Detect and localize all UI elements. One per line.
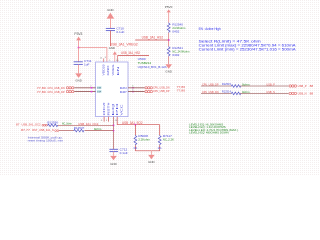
svg-text:2.2Kohm: 2.2Kohm [138, 138, 150, 142]
ground [109, 46, 117, 62]
capacitor C710 [106, 27, 125, 46]
wire [240, 92, 288, 94]
power P3V3 [74, 32, 82, 48]
node CPU_USB_DN far right [202, 90, 231, 94]
capacitor C712 [109, 148, 128, 156]
svg-text:UQFN10_BV1_B-12A: UQFN10_BV1_B-12A [138, 65, 167, 69]
svg-text:USB_N: USB_N [298, 92, 307, 96]
net USB_OC2 [16, 123, 47, 127]
wire [79, 48, 107, 62]
wire [240, 85, 288, 87]
resistor R7117 [158, 125, 175, 151]
svg-text:PD: PD [116, 103, 119, 116]
node CPU_USB_DN right [145, 85, 186, 90]
svg-text:R12537: R12537 [74, 126, 85, 130]
svg-text:USB_3A1_OC2: USB_3A1_OC2 [22, 123, 41, 127]
junction [91, 87, 93, 89]
wire [128, 87, 145, 89]
svg-text:P5V0: P5V0 [165, 5, 173, 9]
junction [132, 87, 134, 89]
svg-text:0.1uF: 0.1uF [116, 30, 124, 34]
svg-text:OC#: OC# [103, 101, 106, 116]
svg-text:GND: GND [107, 65, 110, 76]
pin names top [102, 64, 120, 76]
svg-text:D1N: D1N [97, 88, 101, 90]
junction [91, 91, 93, 93]
node CPU_USB_DP left [37, 90, 74, 94]
ground [110, 156, 117, 166]
node USB_N offpage [289, 92, 313, 96]
svg-text:USB_N: USB_N [266, 90, 275, 94]
svg-text:NC_2.2K: NC_2.2K [163, 138, 174, 142]
svg-text:0402: 0402 [172, 29, 179, 33]
svg-text:GND: GND [165, 70, 172, 74]
wire [74, 91, 95, 93]
svg-text:EN: EN [117, 66, 120, 76]
svg-text:R12536: R12536 [47, 120, 58, 124]
svg-text:D1P: D1P [97, 91, 101, 93]
svg-text:USB_P: USB_P [298, 84, 307, 88]
net USB_3A1_HS2 [135, 36, 169, 40]
svg-text:CPU_USB_DP: CPU_USB_DP [47, 90, 64, 94]
op-amp U500 box [96, 57, 167, 117]
svg-text:0ohm: 0ohm [242, 82, 250, 86]
svg-text:87: 87 [16, 123, 20, 127]
svg-text:reset timing 100uS, min: reset timing 100uS, min [28, 138, 64, 142]
note internal pullup [28, 135, 64, 142]
junction [113, 124, 115, 126]
svg-text:77,80: 77,80 [37, 90, 46, 94]
svg-text:D2N: D2N [120, 87, 127, 90]
wire [85, 130, 114, 132]
wire vertical to C712 [113, 117, 115, 150]
resistor R12536 [47, 120, 72, 126]
wire [201, 92, 231, 94]
junction [78, 47, 80, 49]
svg-text:RST_USB_3A1_N: RST_USB_3A1_N [32, 128, 54, 132]
svg-text:1uF: 1uF [84, 63, 90, 67]
power P5V0 [165, 5, 173, 22]
junction [113, 130, 115, 132]
pin names bottom [103, 101, 124, 116]
wire [59, 130, 74, 132]
svg-text:88: 88 [310, 92, 314, 96]
ground [107, 8, 115, 28]
junction [132, 91, 134, 93]
svg-text:77,80: 77,80 [177, 89, 186, 93]
note EQ levels [189, 124, 238, 135]
junction [135, 124, 137, 126]
svg-text:GND: GND [75, 78, 82, 82]
note EN block [199, 27, 297, 51]
svg-text:USB_3A1_EQ2: USB_3A1_EQ2 [122, 121, 143, 125]
svg-text:USB_P: USB_P [266, 82, 275, 86]
wire [135, 150, 159, 152]
svg-text:VREG: VREG [112, 64, 115, 75]
svg-text:87,77: 87,77 [21, 128, 30, 132]
svg-text:VDD33: VDD33 [102, 64, 105, 76]
svg-text:88: 88 [310, 84, 314, 88]
wire [128, 91, 145, 93]
ground [165, 64, 172, 73]
resistor R12541 [167, 46, 190, 57]
svg-text:EN : Active High: EN : Active High [199, 27, 221, 31]
wire [168, 56, 170, 64]
svg-text:R12514: R12514 [222, 90, 231, 94]
svg-text:1%: 1% [158, 146, 163, 150]
svg-text:EQ: EQ [112, 103, 115, 115]
pin D1N [97, 86, 102, 89]
node CPU_USB_DN left [37, 86, 74, 90]
ground [75, 73, 82, 82]
wire [58, 124, 114, 126]
resistor R5008 [133, 125, 150, 151]
resistor R12540 [167, 22, 186, 33]
svg-text:RST#: RST# [107, 101, 110, 115]
wire [78, 48, 80, 62]
svg-text:LEVEL0 EQ: 480OHMS DOWN: LEVEL0 EQ: 480OHMS DOWN [189, 131, 229, 134]
svg-text:USB_3A1_HS2: USB_3A1_HS2 [142, 36, 164, 40]
svg-text:USB_3A1_HS2: USB_3A1_HS2 [121, 51, 140, 55]
pin D1P [97, 90, 102, 93]
capacitor C711 [74, 59, 92, 73]
svg-text:Current Limit (min) = 25230/47: Current Limit (min) = 25230/47.5K*1.016 … [199, 47, 297, 51]
svg-text:GND: GND [109, 46, 115, 50]
junction [168, 39, 170, 41]
svg-text:GND: GND [110, 162, 117, 166]
node CPU_USB_DP right [145, 89, 186, 94]
svg-text:D2P: D2P [120, 91, 127, 94]
ground [148, 151, 155, 164]
svg-text:0402: 0402 [172, 53, 179, 57]
resistor R12515 [231, 85, 241, 88]
resistor R12514 [231, 92, 241, 95]
net RST_USB_3A1_N [21, 128, 59, 132]
svg-text:0.1uF: 0.1uF [120, 151, 128, 155]
svg-text:USB_3A1_VREG2: USB_3A1_VREG2 [110, 43, 138, 47]
node CPU_USB_DP far right [202, 82, 231, 86]
svg-text:1%: 1% [133, 146, 138, 150]
net USB_3A1_EQ2 [117, 121, 160, 125]
svg-text:CPU_USB_DP: CPU_USB_DP [153, 89, 170, 93]
pin numbers [101, 57, 119, 122]
net USB_3A1_HS2 [118, 51, 149, 62]
resistor R12537 [74, 126, 103, 132]
wire pin stub [100, 57, 104, 62]
node USB_P offpage [289, 84, 313, 88]
svg-text:P3V3: P3V3 [74, 32, 82, 36]
wire [168, 33, 170, 46]
wire bottom stubs [104, 117, 117, 122]
svg-text:GND: GND [107, 8, 114, 12]
svg-text:VCC: VCC [120, 104, 123, 116]
svg-text:0ohm: 0ohm [242, 90, 250, 94]
wire [74, 87, 95, 89]
svg-text:GND: GND [148, 160, 155, 164]
wire [201, 85, 231, 87]
svg-text:R12515: R12515 [222, 82, 231, 86]
